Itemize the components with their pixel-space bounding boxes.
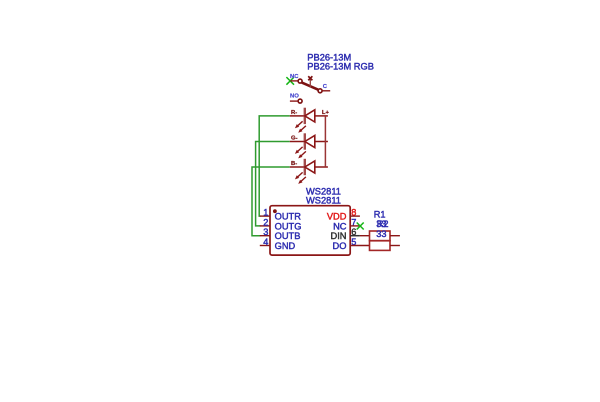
svg-text:R2: R2 — [377, 219, 389, 229]
svg-text:NC: NC — [333, 221, 347, 231]
svg-text:NO: NO — [290, 94, 299, 100]
svg-text:G-: G- — [291, 136, 298, 142]
svg-text:1: 1 — [263, 208, 268, 218]
svg-text:GND: GND — [275, 241, 296, 251]
svg-text:33: 33 — [376, 229, 386, 239]
svg-text:DO: DO — [333, 241, 347, 251]
svg-text:L+: L+ — [322, 110, 330, 116]
svg-text:OUTG: OUTG — [275, 221, 302, 231]
svg-text:DIN: DIN — [330, 231, 346, 241]
svg-text:PB26-13M RGB: PB26-13M RGB — [307, 62, 374, 72]
svg-text:R-: R- — [291, 110, 297, 116]
svg-text:C: C — [323, 84, 328, 90]
svg-text:NC: NC — [290, 74, 299, 80]
svg-text:OUTB: OUTB — [275, 231, 301, 241]
svg-text:OUTR: OUTR — [275, 212, 302, 222]
svg-text:4: 4 — [263, 237, 268, 247]
svg-text:B-: B- — [291, 161, 297, 167]
svg-text:2: 2 — [263, 217, 268, 227]
svg-text:WS2811: WS2811 — [306, 195, 341, 205]
svg-text:3: 3 — [263, 227, 268, 237]
svg-text:VDD: VDD — [327, 212, 347, 222]
svg-text:R1: R1 — [374, 209, 386, 219]
